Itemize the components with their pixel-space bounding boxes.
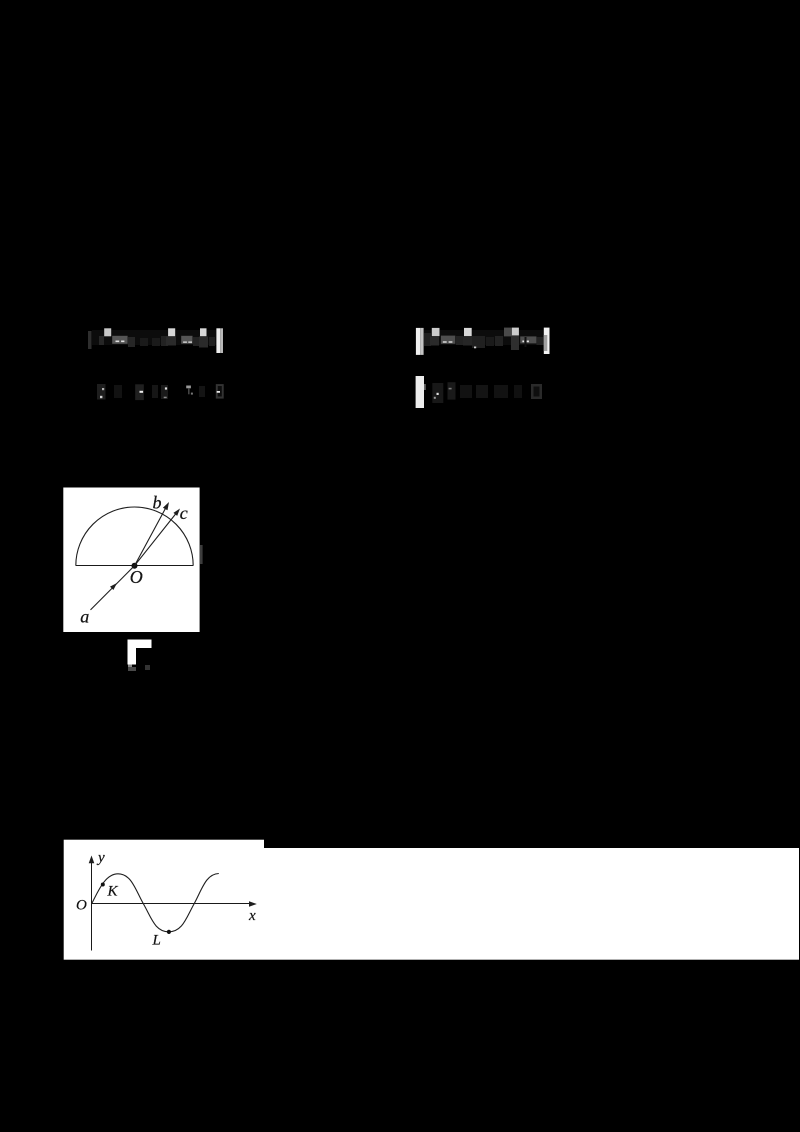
equation ghost row 1 right: right bright bar [544, 328, 550, 354]
equation ghost row 2 left: dim glyphs [97, 384, 106, 400]
svg-text:O: O [130, 567, 143, 587]
svg-text:y: y [96, 850, 105, 866]
gamma white mark [128, 640, 152, 665]
white band right of figure 2 [264, 848, 799, 960]
svg-text:O: O [76, 898, 87, 914]
figure 2: white background box [64, 840, 264, 960]
figure 1: semicircle arc [76, 507, 193, 566]
figure 1: ray c [135, 513, 177, 566]
svg-text:K: K [107, 884, 119, 900]
figure 1: diameter line [76, 565, 193, 567]
figure 2: sine curve [92, 874, 219, 932]
equation ghost row 1 left: glyph fragments [99, 336, 104, 345]
figure 1: gray sliver tab at right edge [200, 545, 203, 564]
svg-text:x: x [248, 908, 256, 924]
figure 2: y axis [91, 860, 93, 951]
figure 1: ray b [135, 507, 167, 566]
equation ghost row 2 right: bright left bar [416, 376, 424, 408]
figure 1: ray a incoming [91, 566, 135, 610]
equation ghost row 1 right: left bright bar [416, 328, 420, 355]
equation ghost row 1 left: bright right bar [216, 328, 220, 353]
svg-text:c: c [180, 503, 188, 523]
equation ghost row 1 right: base strip [424, 330, 544, 345]
figure 2: point K [101, 883, 105, 887]
svg-text:b: b [153, 493, 162, 513]
equation ghost row 1 left: dim left bracket [88, 331, 92, 349]
figure 2: point L [167, 930, 171, 934]
figure 1: white background box [63, 488, 199, 633]
svg-text:L: L [152, 933, 161, 949]
equation ghost row 1 right: glyph fragments [424, 333, 431, 346]
figure 1: center dot O [132, 563, 138, 569]
gamma gray fragments [128, 665, 132, 669]
equation ghost row 1 left: base strip [92, 330, 218, 345]
figure 2: x axis [92, 903, 253, 905]
equation ghost row 2 right: dim glyphs [432, 383, 443, 403]
svg-text:a: a [80, 607, 89, 627]
